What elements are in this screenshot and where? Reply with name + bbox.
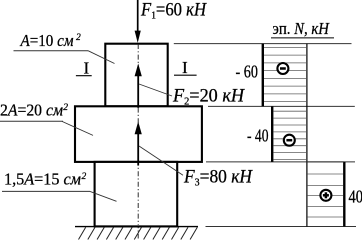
N rect +40 hatch (307, 174, 343, 217)
plus sign circle for +40 (320, 190, 331, 201)
underline of label 1,5A (2, 190, 90, 192)
force F3 arrow (upward inside middle block) (135, 122, 142, 166)
N rect +40 right thick edge (343, 162, 345, 227)
leader from label 2A into middle block (62, 121, 93, 135)
svg-text:40: 40 (349, 187, 362, 207)
construction line junction 1 level (208, 105, 355, 107)
svg-text:2A=20 см: 2A=20 см (0, 101, 63, 120)
svg-text:- 60: - 60 (236, 62, 258, 82)
leader to F2 label (139, 84, 172, 96)
leader from label 1,5A into bottom block (90, 191, 117, 201)
N rect -40 left thick edge (271, 106, 273, 161)
leader from label A into top block (88, 51, 115, 64)
title underline (271, 37, 334, 39)
force F1 arrow (downward onto top of column) (135, 0, 141, 43)
ground line (75, 226, 198, 228)
centerline (dash-dot axis of column) (137, 43, 139, 239)
svg-text:A=10 см: A=10 см (20, 31, 74, 50)
svg-text:F2=20 кН: F2=20 кН (172, 86, 246, 107)
minus sign circle for -40 (284, 135, 295, 146)
svg-text:2: 2 (76, 33, 81, 43)
svg-text:2: 2 (63, 103, 68, 113)
ground hatching (79, 227, 198, 239)
N rect +40 top edge (307, 161, 344, 163)
svg-text:эп. N, кН: эп. N, кН (273, 19, 331, 38)
construction line junction 2 level (206, 161, 355, 163)
bottom block 1.5A=15 (95, 162, 178, 227)
svg-text:- 40: - 40 (247, 126, 269, 146)
underline of label A (14, 50, 89, 52)
svg-text:I: I (182, 58, 188, 77)
middle block 2A=20 (75, 106, 202, 162)
svg-text:2: 2 (82, 172, 87, 182)
svg-text:F1=60 кН: F1=60 кН (140, 0, 207, 21)
underline of label 2A (0, 120, 63, 122)
centerline inside blocks (137, 44, 139, 225)
diagram base line (206, 226, 357, 228)
top block A=10 (105, 44, 167, 107)
construction line top level (174, 43, 352, 45)
svg-text:F3=80 кН: F3=80 кН (183, 167, 253, 188)
N rect -40 hatch (273, 111, 306, 159)
svg-text:I: I (84, 58, 90, 77)
force F2 arrow (upward inside top block) (135, 64, 142, 108)
svg-text:1,5A=15 см: 1,5A=15 см (4, 170, 81, 189)
diagram zero baseline vertical (306, 44, 308, 227)
N rect -60 hatch (264, 47, 306, 101)
minus sign circle for -60 (277, 63, 288, 74)
leader to F3 label (139, 146, 183, 175)
N rect -60 left thick edge (262, 44, 264, 107)
